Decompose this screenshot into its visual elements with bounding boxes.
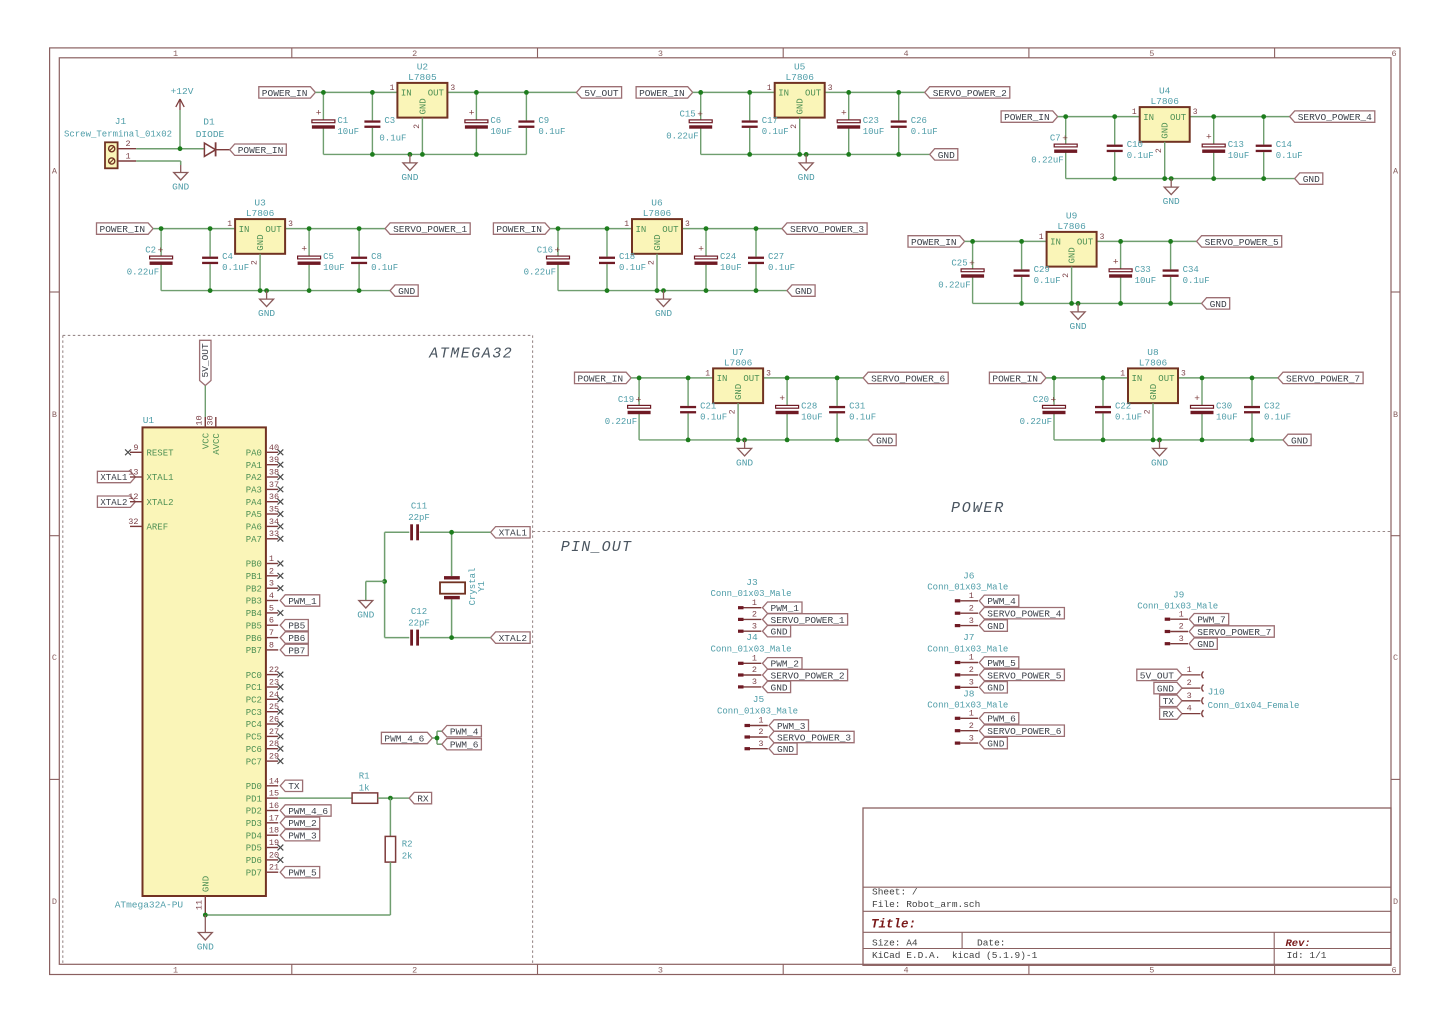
J8 pin 1 xyxy=(955,709,978,720)
svg-text:SERVO_POWER_1: SERVO_POWER_1 xyxy=(393,224,467,235)
label SERVO_POWER_5 (J7) xyxy=(979,669,1064,681)
svg-text:XTAL1: XTAL1 xyxy=(499,528,528,539)
svg-text:PIN_OUT: PIN_OUT xyxy=(561,539,632,556)
svg-text:3: 3 xyxy=(752,621,757,631)
label PB7 xyxy=(280,644,308,656)
label SERVO_POWER_6 (J8) xyxy=(979,725,1064,737)
svg-text:C19: C19 xyxy=(618,395,634,405)
svg-text:5V_OUT: 5V_OUT xyxy=(584,88,619,99)
label POWER_IN (input to U6) xyxy=(493,223,550,235)
connector J8 Conn_01x03_Male xyxy=(927,688,1008,710)
svg-text:GND: GND xyxy=(1291,435,1308,446)
svg-text:POWER_IN: POWER_IN xyxy=(1004,112,1050,123)
svg-text:L7806: L7806 xyxy=(1139,357,1168,368)
U1 pin 38 PA2 xyxy=(246,468,284,484)
label XTAL1 (U1 pin 13) xyxy=(97,471,135,483)
junctions of U8 xyxy=(1052,376,1255,443)
U1 pin 4 PB3 xyxy=(246,591,279,607)
svg-text:J9: J9 xyxy=(1173,589,1185,600)
svg-text:PC1: PC1 xyxy=(246,683,262,693)
svg-text:GND: GND xyxy=(1157,684,1174,695)
svg-text:3: 3 xyxy=(758,739,763,749)
regulator U3 L7806 xyxy=(227,198,293,265)
svg-text:C29: C29 xyxy=(1034,265,1050,275)
svg-text:16: 16 xyxy=(269,801,279,811)
svg-text:L7805: L7805 xyxy=(408,72,437,83)
svg-text:GND: GND xyxy=(876,435,893,446)
J5 pin 3 xyxy=(745,739,768,750)
svg-text:3: 3 xyxy=(1179,634,1184,644)
svg-text:C32: C32 xyxy=(1264,401,1280,411)
svg-text:C21: C21 xyxy=(700,401,716,411)
svg-text:+: + xyxy=(969,258,975,269)
svg-text:C7: C7 xyxy=(1050,134,1061,144)
svg-text:GND: GND xyxy=(987,739,1004,750)
svg-text:5: 5 xyxy=(1149,49,1154,59)
U1 pin 24 PC2 xyxy=(246,690,284,706)
svg-text:XTAL2: XTAL2 xyxy=(499,633,528,644)
svg-text:3: 3 xyxy=(450,84,455,93)
U1 pin 36 PA4 xyxy=(246,492,284,508)
svg-text:2: 2 xyxy=(412,49,417,59)
svg-text:C6: C6 xyxy=(490,116,501,126)
svg-text:0.1uF: 0.1uF xyxy=(1183,276,1210,286)
connector J10 Conn_01x04_Female xyxy=(1208,687,1300,711)
svg-text:+: + xyxy=(316,107,322,118)
svg-text:PD6: PD6 xyxy=(246,856,262,866)
capacitor C18 0.1uF xyxy=(599,229,646,291)
svg-text:PWM_2: PWM_2 xyxy=(771,659,800,670)
label PWM_5 (J7) xyxy=(979,657,1019,669)
svg-text:10uF: 10uF xyxy=(323,263,345,273)
svg-text:0.1uF: 0.1uF xyxy=(768,263,795,273)
svg-text:GND: GND xyxy=(734,384,744,400)
label GND of U6 xyxy=(787,285,815,297)
svg-text:OUT: OUT xyxy=(1158,374,1175,384)
section text PIN_OUT xyxy=(561,539,632,556)
svg-text:Y1: Y1 xyxy=(477,581,487,592)
svg-text:3: 3 xyxy=(752,677,757,687)
ground rail of U2 xyxy=(323,153,526,155)
svg-text:SERVO_POWER_3: SERVO_POWER_3 xyxy=(790,224,864,235)
label SERVO_POWER_7 xyxy=(1278,372,1363,384)
svg-text:GND: GND xyxy=(987,683,1004,694)
dashed divider POWER / PIN_OUT xyxy=(533,531,1391,533)
ground symbol of U5 xyxy=(798,154,815,183)
svg-text:36: 36 xyxy=(269,492,279,502)
svg-text:+: + xyxy=(698,244,704,255)
svg-text:1: 1 xyxy=(758,716,763,726)
svg-text:RESET: RESET xyxy=(147,449,175,459)
diode D1 xyxy=(196,117,230,157)
svg-text:A: A xyxy=(52,166,58,176)
U1 pin 40 PA0 xyxy=(246,443,284,459)
svg-text:3: 3 xyxy=(969,616,974,626)
svg-text:PB6: PB6 xyxy=(288,633,305,644)
capacitor C13 10uF xyxy=(1202,117,1249,179)
label POWER_IN (input to U3) xyxy=(97,223,154,235)
section text ATMEGA32 xyxy=(428,346,513,363)
svg-text:SERVO_POWER_2: SERVO_POWER_2 xyxy=(771,670,845,681)
svg-text:PWM_5: PWM_5 xyxy=(288,868,317,879)
svg-text:C3: C3 xyxy=(384,116,395,126)
wire PD1 to R1 xyxy=(278,797,352,799)
wire POWER_IN to U5 IN xyxy=(693,91,775,93)
label SERVO_POWER_4 (J6) xyxy=(979,608,1064,620)
wire PWM_4_6 splitter xyxy=(432,731,442,744)
svg-text:PA3: PA3 xyxy=(246,486,262,496)
ground of crystal section xyxy=(357,600,374,620)
svg-text:1: 1 xyxy=(624,220,629,229)
svg-text:IN: IN xyxy=(1132,374,1143,384)
svg-text:2: 2 xyxy=(1179,622,1184,632)
label SERVO_POWER_3 xyxy=(782,223,867,235)
junction at +12V node xyxy=(178,146,183,151)
svg-text:1k: 1k xyxy=(359,784,370,794)
svg-text:U8: U8 xyxy=(1147,347,1159,358)
svg-text:0.1uF: 0.1uF xyxy=(1127,151,1154,161)
junctions of U2 xyxy=(321,90,529,157)
svg-text:1: 1 xyxy=(1179,609,1184,619)
label PWM_6 (J8) xyxy=(979,713,1019,725)
U1 pin 15 PD1 xyxy=(246,789,279,805)
svg-text:32: 32 xyxy=(128,517,138,527)
svg-text:PD3: PD3 xyxy=(246,819,262,829)
svg-text:TX: TX xyxy=(288,781,300,792)
label GND (J8) xyxy=(979,737,1007,749)
svg-text:4: 4 xyxy=(1187,704,1192,714)
svg-text:PD2: PD2 xyxy=(246,807,262,817)
svg-text:File: Robot_arm.sch: File: Robot_arm.sch xyxy=(872,899,980,910)
svg-text:2: 2 xyxy=(969,603,974,613)
svg-text:8: 8 xyxy=(269,640,274,650)
ground symbol of U7 xyxy=(736,440,753,469)
svg-text:10uF: 10uF xyxy=(1216,412,1238,422)
svg-text:3: 3 xyxy=(658,966,663,976)
svg-text:3: 3 xyxy=(1193,108,1198,117)
svg-text:SERVO_POWER_3: SERVO_POWER_3 xyxy=(777,732,851,743)
svg-text:PD1: PD1 xyxy=(246,794,262,804)
svg-text:+: + xyxy=(1194,393,1200,404)
label PWM_1 xyxy=(280,595,320,607)
ground rail of U7 xyxy=(639,439,868,441)
junctions of U5 xyxy=(698,90,901,157)
section text POWER xyxy=(951,500,1005,517)
svg-text:2: 2 xyxy=(1062,273,1071,278)
label PWM_4_6 (source) xyxy=(381,732,432,744)
U1 pin 5 PB4 xyxy=(246,603,284,619)
svg-text:0.1uF: 0.1uF xyxy=(1115,412,1142,422)
svg-text:J7: J7 xyxy=(963,632,974,643)
junction at U1 GND xyxy=(203,913,208,918)
capacitor C1 10uF xyxy=(312,92,359,154)
svg-text:0.22uF: 0.22uF xyxy=(1031,156,1063,166)
capacitor C14 0.1uF xyxy=(1256,117,1303,179)
ground rail of U5 xyxy=(701,153,930,155)
J6 pin 1 xyxy=(955,591,978,602)
svg-text:3: 3 xyxy=(269,579,274,589)
capacitor C7 0.22uF xyxy=(1031,117,1077,179)
svg-text:18: 18 xyxy=(269,826,279,836)
svg-text:Rev:: Rev: xyxy=(1286,938,1311,950)
svg-text:C34: C34 xyxy=(1183,265,1199,275)
svg-text:10: 10 xyxy=(195,415,205,425)
svg-text:39: 39 xyxy=(269,455,279,465)
svg-text:0.22uF: 0.22uF xyxy=(1020,417,1052,427)
svg-text:1: 1 xyxy=(390,84,395,93)
svg-text:GND: GND xyxy=(987,621,1004,632)
capacitor C19 0.22uF xyxy=(605,378,651,440)
svg-text:+: + xyxy=(841,107,847,118)
junction R1/R2 xyxy=(388,796,393,801)
svg-text:PA2: PA2 xyxy=(246,473,262,483)
crystal Y1 xyxy=(440,568,487,606)
title block xyxy=(863,808,1391,965)
label PWM_2 xyxy=(280,817,320,829)
svg-text:1: 1 xyxy=(269,554,274,564)
wire U8 OUT to SERVO_POWER_7 xyxy=(1178,377,1278,379)
label SERVO_POWER_7 (J9) xyxy=(1189,626,1274,638)
label PWM_3 (J5) xyxy=(769,720,809,732)
svg-text:2: 2 xyxy=(269,566,274,576)
svg-text:GND: GND xyxy=(418,98,428,114)
svg-text:PC2: PC2 xyxy=(246,696,262,706)
resistor R2 2k xyxy=(385,836,412,862)
label POWER_IN (input to U2) xyxy=(259,87,316,99)
label XTAL2 (crystal) xyxy=(491,632,530,644)
svg-text:U1: U1 xyxy=(143,415,155,426)
ground symbol of U8 xyxy=(1151,440,1168,469)
svg-text:AREF: AREF xyxy=(147,523,169,533)
label POWER_IN (input to U9) xyxy=(908,236,965,248)
capacitor C12 22pF xyxy=(385,607,452,646)
svg-text:2: 2 xyxy=(752,610,757,620)
svg-text:L7806: L7806 xyxy=(1150,96,1179,107)
svg-text:SERVO_POWER_5: SERVO_POWER_5 xyxy=(1205,237,1279,248)
svg-text:PA1: PA1 xyxy=(246,461,262,471)
svg-text:C: C xyxy=(1393,653,1398,663)
svg-text:POWER_IN: POWER_IN xyxy=(238,145,284,156)
svg-text:15: 15 xyxy=(269,789,279,799)
wire U6 pin2 to ground rail xyxy=(656,254,658,291)
wire POWER_IN to U6 IN xyxy=(550,228,632,230)
svg-text:+: + xyxy=(697,109,703,120)
power symbol +12V xyxy=(171,86,194,149)
svg-text:GND: GND xyxy=(1068,247,1078,263)
regulator U4 L7806 xyxy=(1132,86,1198,153)
svg-text:2: 2 xyxy=(790,124,799,129)
svg-text:ATMEGA32: ATMEGA32 xyxy=(428,346,513,363)
dashed box ATMEGA32 section xyxy=(63,335,533,964)
svg-text:14: 14 xyxy=(269,776,279,786)
U1 pin 6 PB5 xyxy=(246,616,279,632)
svg-text:POWER_IN: POWER_IN xyxy=(578,373,624,384)
wire U1 GND to R2 bottom xyxy=(205,914,390,916)
svg-text:0.1uF: 0.1uF xyxy=(911,127,938,137)
ground rail of U6 xyxy=(558,290,787,292)
label 5V_OUT (vertical) xyxy=(200,340,212,385)
U1 pin 12 XTAL2 xyxy=(128,492,173,508)
svg-text:GND: GND xyxy=(777,744,794,755)
J3 pin 1 xyxy=(738,598,761,609)
capacitor C11 22pF xyxy=(385,502,452,541)
J9 pin 1 xyxy=(1165,609,1188,620)
wire POWER_IN to U9 IN xyxy=(965,240,1047,242)
svg-text:PWM_4_6: PWM_4_6 xyxy=(288,806,328,817)
U1 pin 22 PC0 xyxy=(246,665,284,681)
svg-text:C16: C16 xyxy=(537,246,553,256)
svg-text:2: 2 xyxy=(413,124,422,129)
label PWM_4_6 xyxy=(280,805,331,817)
svg-text:D: D xyxy=(1393,897,1398,907)
wire POWER_IN to U7 IN xyxy=(631,377,713,379)
svg-text:11: 11 xyxy=(195,900,205,910)
label GND (J4) xyxy=(763,681,791,693)
svg-text:PD0: PD0 xyxy=(246,782,262,792)
ground rail of U4 xyxy=(1066,178,1295,180)
U1 pin 20 PD6 xyxy=(246,850,284,866)
svg-text:Size: A4: Size: A4 xyxy=(872,938,918,949)
svg-text:PB0: PB0 xyxy=(246,560,262,570)
svg-text:13: 13 xyxy=(128,468,138,478)
label SERVO_POWER_1 (J3) xyxy=(763,614,848,626)
svg-text:L7806: L7806 xyxy=(724,357,753,368)
U1 pin 34 PA6 xyxy=(246,517,284,533)
J9 pin 3 xyxy=(1165,634,1188,645)
label XTAL1 (crystal) xyxy=(491,527,530,539)
svg-text:0.22uF: 0.22uF xyxy=(524,268,556,278)
svg-text:10uF: 10uF xyxy=(1228,151,1250,161)
svg-text:PC4: PC4 xyxy=(246,720,262,730)
wire POWER_IN to U8 IN xyxy=(1046,377,1128,379)
label PWM_5 xyxy=(280,867,320,879)
svg-text:GND: GND xyxy=(1070,321,1087,332)
svg-text:1: 1 xyxy=(1187,665,1192,675)
svg-text:1: 1 xyxy=(1039,233,1044,242)
svg-text:GND: GND xyxy=(655,308,672,319)
junctions of U3 xyxy=(159,226,362,293)
svg-text:C15: C15 xyxy=(679,109,695,119)
svg-text:B: B xyxy=(52,410,57,420)
svg-text:J8: J8 xyxy=(963,688,975,699)
regulator U2 L7805 xyxy=(390,61,456,128)
svg-text:1: 1 xyxy=(752,598,757,608)
svg-text:U3: U3 xyxy=(254,198,266,209)
svg-text:1: 1 xyxy=(125,152,130,162)
svg-text:C1: C1 xyxy=(337,116,348,126)
svg-text:PWM_1: PWM_1 xyxy=(771,603,800,614)
label PWM_2 (J4) xyxy=(763,658,803,670)
J6 pin 3 xyxy=(955,616,978,627)
svg-text:2: 2 xyxy=(758,727,763,737)
svg-text:3: 3 xyxy=(766,369,771,378)
svg-text:GND: GND xyxy=(771,682,788,693)
J8 pin 3 xyxy=(955,733,978,744)
svg-text:1: 1 xyxy=(173,49,178,59)
svg-text:PA4: PA4 xyxy=(246,498,262,508)
svg-text:C23: C23 xyxy=(863,116,879,126)
svg-text:PB5: PB5 xyxy=(288,621,305,632)
svg-text:C14: C14 xyxy=(1276,140,1292,150)
J5 pin 1 xyxy=(745,716,768,727)
regulator U6 L7806 xyxy=(624,198,690,265)
svg-text:12: 12 xyxy=(128,492,138,502)
svg-text:+: + xyxy=(1050,394,1056,405)
svg-text:J6: J6 xyxy=(963,570,975,581)
wire POWER_IN to U2 IN xyxy=(315,91,397,93)
svg-text:9: 9 xyxy=(133,443,138,453)
svg-text:6: 6 xyxy=(1391,966,1396,976)
svg-text:Title:: Title: xyxy=(871,917,916,931)
svg-text:GND: GND xyxy=(1149,384,1159,400)
J3 pin 3 xyxy=(738,621,761,632)
svg-text:GND: GND xyxy=(938,150,955,161)
label GND of U9 xyxy=(1202,298,1230,310)
U1 pin 1 PB0 xyxy=(246,554,284,570)
capacitor C32 0.1uF xyxy=(1244,378,1291,440)
svg-text:GND: GND xyxy=(202,876,212,892)
svg-text:2: 2 xyxy=(969,721,974,731)
svg-text:PWM_7: PWM_7 xyxy=(1197,615,1226,626)
svg-text:21: 21 xyxy=(269,863,279,873)
U1 pin 13 XTAL1 xyxy=(128,468,173,484)
svg-text:GND: GND xyxy=(798,172,815,183)
connector J9 Conn_01x03_Male xyxy=(1137,589,1218,611)
svg-text:C4: C4 xyxy=(222,252,233,262)
junctions of U6 xyxy=(556,226,759,293)
wire U2 pin2 to ground rail xyxy=(421,118,423,155)
svg-text:C5: C5 xyxy=(323,252,334,262)
ground symbol of U2 xyxy=(401,154,418,183)
svg-text:PB2: PB2 xyxy=(246,584,262,594)
label GND (J5) xyxy=(769,743,797,755)
svg-text:J10: J10 xyxy=(1208,687,1225,698)
svg-text:19: 19 xyxy=(269,838,279,848)
svg-text:4: 4 xyxy=(269,591,274,601)
svg-text:1: 1 xyxy=(969,591,974,601)
label SERVO_POWER_2 xyxy=(925,87,1010,99)
connector J3 Conn_01x03_Male xyxy=(710,577,791,599)
label SERVO_POWER_4 xyxy=(1290,111,1375,123)
J7 pin 2 xyxy=(955,665,978,676)
J7 pin 1 xyxy=(955,653,978,664)
capacitor C10 0.1uF xyxy=(1107,117,1154,179)
svg-text:0.1uF: 0.1uF xyxy=(1034,276,1061,286)
label PWM_4 (J6) xyxy=(979,595,1019,607)
svg-text:2k: 2k xyxy=(402,851,413,861)
svg-text:ATmega32A-PU: ATmega32A-PU xyxy=(115,899,184,910)
svg-text:0.22uF: 0.22uF xyxy=(605,417,637,427)
wire U5 pin2 to ground rail xyxy=(799,118,801,155)
svg-text:B: B xyxy=(1393,410,1398,420)
svg-text:22pF: 22pF xyxy=(408,619,430,629)
label GND of U8 xyxy=(1283,434,1311,446)
svg-text:33: 33 xyxy=(269,529,279,539)
junctions of U7 xyxy=(637,376,840,443)
U1 pin 10 VCC xyxy=(195,415,212,449)
capacitor C34 0.1uF xyxy=(1163,241,1210,303)
svg-text:0.1uF: 0.1uF xyxy=(762,127,789,137)
label POWER_IN (input to U5) xyxy=(636,87,693,99)
capacitor C20 0.22uF xyxy=(1020,378,1066,440)
capacitor C30 10uF xyxy=(1191,378,1238,440)
svg-text:RX: RX xyxy=(417,794,429,805)
svg-text:1: 1 xyxy=(752,654,757,664)
svg-text:GND: GND xyxy=(1303,174,1320,185)
wire U6 OUT to SERVO_POWER_3 xyxy=(682,228,782,230)
J4 pin 2 xyxy=(738,665,761,676)
svg-text:0.1uF: 0.1uF xyxy=(1264,412,1291,422)
